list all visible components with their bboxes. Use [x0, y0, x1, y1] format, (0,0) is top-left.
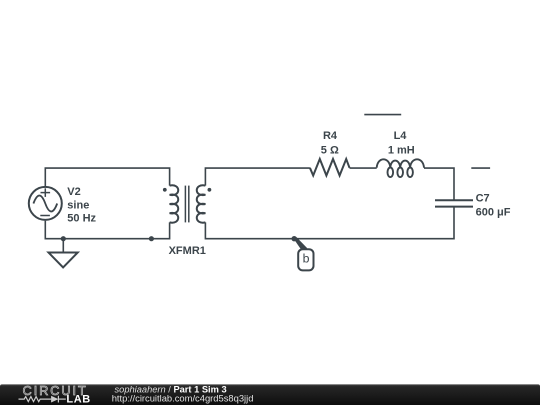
- svg-text:1 mH: 1 mH: [388, 144, 415, 156]
- node b junction dot: [292, 236, 297, 241]
- wire floating stub upper: [364, 114, 401, 116]
- inductor L4: [377, 159, 424, 177]
- V2 value label: [67, 186, 96, 225]
- svg-text:http://circuitlab.com/c4grd5s8: http://circuitlab.com/c4grd5s8q3jjd: [112, 392, 254, 403]
- R4 label: [321, 130, 339, 156]
- svg-text:600 μF: 600 μF: [476, 206, 511, 218]
- svg-text:R4: R4: [323, 130, 338, 142]
- svg-text:L4: L4: [394, 130, 408, 142]
- svg-text:5 Ω: 5 Ω: [321, 144, 339, 156]
- node b flag pointer: [293, 237, 307, 250]
- voltage source V2: [29, 187, 62, 220]
- transformer XFMR1: [170, 185, 206, 222]
- wire L4 to C7 top: [424, 168, 454, 200]
- wire R4 to L4: [350, 167, 377, 169]
- svg-text:C7: C7: [476, 193, 490, 205]
- junction dot primary bottom: [149, 236, 154, 241]
- svg-text:50 Hz: 50 Hz: [67, 213, 96, 225]
- phase dot secondary: [208, 188, 212, 192]
- ground: [49, 253, 78, 268]
- logo resistor-diode: [19, 396, 66, 403]
- phase dot primary: [163, 188, 167, 192]
- svg-text:V2: V2: [67, 186, 80, 198]
- svg-text:XFMR1: XFMR1: [169, 245, 206, 257]
- capacitor C7: [435, 200, 473, 206]
- wire top-left (V2 to XFMR1 primary): [45, 168, 169, 186]
- svg-text:sine: sine: [67, 199, 89, 211]
- C7 label: [476, 193, 511, 219]
- node b flag box: [298, 249, 313, 270]
- svg-text:b: b: [303, 251, 310, 265]
- wire bottom-left (V2 to XFMR1 primary bottom): [45, 221, 169, 239]
- resistor R4: [310, 159, 350, 176]
- junction dot ground node: [61, 236, 66, 241]
- wire floating stub right: [471, 167, 490, 169]
- svg-text:LAB: LAB: [66, 394, 90, 405]
- wire top-right (XFMR1 secondary to R4): [205, 168, 310, 186]
- footer bar: [0, 384, 540, 405]
- wire C7 bottom to XFMR1 secondary bottom: [205, 207, 454, 239]
- L4 label: [388, 130, 415, 156]
- wire ground stem: [62, 239, 64, 253]
